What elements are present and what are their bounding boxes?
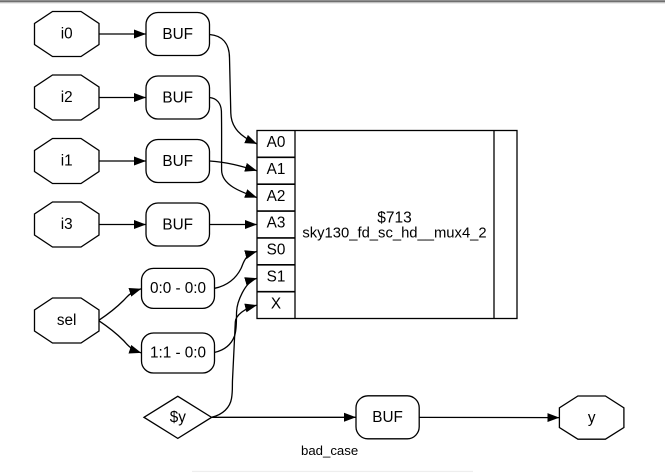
wire i0 to BUF1 [99,33,146,35]
buffer BUF2 [146,76,210,119]
svg-text:$713: $713 [377,210,411,227]
statusbar faint edge [192,471,473,472]
svg-text:A3: A3 [267,215,286,232]
svg-text:A2: A2 [267,188,286,205]
port i0 [35,12,100,57]
cell $713 sky130_fd_sc_hd__mux4_2 [257,131,517,319]
wire $y to BUF5 [212,416,356,418]
svg-text:sky130_fd_sc_hd__mux4_2: sky130_fd_sc_hd__mux4_2 [302,226,486,242]
svg-text:S1: S1 [267,269,286,286]
buffer BUF5 [356,396,419,439]
svg-text:BUF: BUF [372,409,403,426]
wire BUF2 to pin A2 [210,98,258,198]
buffer BUF1 [146,13,210,56]
svg-text:0:0 - 0:0: 0:0 - 0:0 [150,280,206,297]
svg-text:1:1 - 0:0: 1:1 - 0:0 [150,345,206,362]
port i3 [35,202,100,247]
svg-text:A1: A1 [267,161,286,178]
svg-text:sel: sel [57,312,77,329]
wire i2 to BUF2 [99,97,146,99]
port y [559,396,624,439]
port sel [35,298,100,343]
wire BUF4 to pin A3 [210,224,258,226]
svg-text:BUF: BUF [162,153,193,170]
slice 1:1 - 0:0 [142,333,215,373]
wire slice 0:0 to pin S0 [215,251,257,288]
svg-text:i1: i1 [61,153,73,170]
svg-text:BUF: BUF [162,217,193,234]
wire i1 to BUF3 [99,160,146,162]
svg-text:i0: i0 [61,26,73,43]
svg-text:i2: i2 [61,89,73,106]
wire BUF3 to pin A1 [210,161,258,171]
svg-text:BUF: BUF [162,26,193,43]
wire $y to pin X [212,305,257,417]
wire sel to slice 0:0 [99,289,142,321]
svg-text:S0: S0 [267,242,286,259]
svg-text:A0: A0 [267,134,286,151]
wire sel to slice 1:1 [99,321,142,353]
toolbar bottom edge (window chrome) [0,0,665,4]
port i1 [35,139,100,184]
wire i3 to BUF4 [99,224,146,226]
svg-text:$y: $y [170,409,187,426]
buffer BUF4 [146,203,210,246]
wire slice 1:1 to pin S1 [215,278,257,352]
svg-text:y: y [588,409,596,426]
slice 0:0 - 0:0 [142,268,215,308]
port i2 [35,75,100,120]
node $y [144,396,212,438]
svg-text:bad_case: bad_case [301,443,358,458]
svg-text:i3: i3 [61,216,73,233]
wire BUF1 to pin A0 [210,35,258,144]
buffer BUF3 [146,140,210,183]
svg-text:X: X [271,295,281,312]
svg-text:BUF: BUF [162,90,193,107]
wire BUF5 to y [419,416,559,418]
